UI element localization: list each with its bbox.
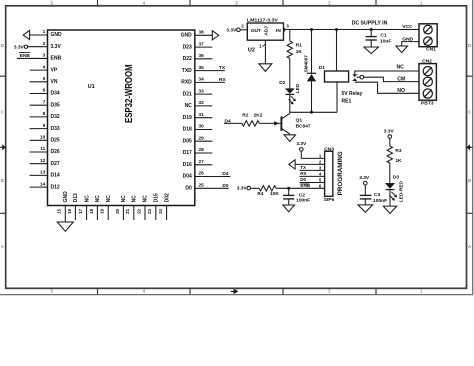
svg-text:NC: NC <box>121 195 127 203</box>
R3 1K resistor <box>387 138 402 183</box>
U1 pin 21 (NC) bottom wire and label <box>125 195 137 220</box>
svg-text:2: 2 <box>43 41 46 46</box>
svg-text:28: 28 <box>199 147 205 152</box>
CN3 pin 2 GND wire with port arrow <box>289 160 325 169</box>
svg-text:SM4007: SM4007 <box>303 55 308 73</box>
CN3 pin 4 RX wire <box>300 171 325 177</box>
junction dot rail/relay coil <box>335 28 338 31</box>
U1 pin 24 (D02) bottom wire and label <box>158 193 170 220</box>
U1 pin 20 (NC) bottom wire and label <box>115 195 127 220</box>
svg-text:D0: D0 <box>300 177 306 182</box>
svg-text:CN2: CN2 <box>422 59 432 65</box>
U1 pin 2 (3.3V) wire and label <box>14 41 62 50</box>
CN1 label <box>426 47 436 53</box>
U1 pin 17 (NC) bottom wire and label <box>78 195 90 220</box>
CN3 label <box>324 146 334 152</box>
svg-text:9: 9 <box>43 123 46 128</box>
U1 pin 29 (D05) wire and label <box>183 135 213 144</box>
U1 pin 14 (D12) wire and label <box>30 181 60 190</box>
svg-text:29: 29 <box>199 135 205 140</box>
svg-text:D25: D25 <box>51 138 60 144</box>
U1 pin 31 (D19) wire and label <box>183 112 213 121</box>
junction dot rail/D1 <box>310 28 313 31</box>
wire CM net <box>364 76 419 82</box>
U1 pin 36 (D22) wire and label <box>183 53 213 62</box>
U2 pin 3 number <box>286 23 289 28</box>
svg-text:LED-RED: LED-RED <box>399 180 405 202</box>
svg-text:LED: LED <box>295 83 301 93</box>
svg-text:LM1117-3.3V: LM1117-3.3V <box>247 18 279 23</box>
svg-text:1K: 1K <box>395 158 402 164</box>
VCC label <box>402 24 413 30</box>
Q1 base arrow <box>274 121 279 125</box>
svg-text:R2: R2 <box>242 112 248 118</box>
svg-text:7: 7 <box>43 99 46 104</box>
U1 pin 26 (D04) wire and label <box>183 171 231 180</box>
U1 pin 34 (RXD) wire and label <box>181 77 226 86</box>
svg-text:GND: GND <box>63 191 69 203</box>
junction dot rail/C1 <box>370 28 373 31</box>
svg-text:NO: NO <box>397 88 405 94</box>
svg-text:C: C <box>468 109 471 114</box>
svg-text:35: 35 <box>199 65 205 70</box>
U1 pin 16 (D13) bottom wire and label <box>67 193 79 220</box>
svg-text:RX: RX <box>300 171 307 176</box>
U1 pin 37 (D23) wire and label <box>183 41 213 50</box>
svg-text:5: 5 <box>43 76 46 81</box>
svg-text:VN: VN <box>51 79 58 85</box>
frame right zone ticks <box>467 76 473 213</box>
U1 pin 30 (D18) wire and label <box>183 124 213 133</box>
svg-text:D32: D32 <box>51 114 60 120</box>
svg-text:RXD: RXD <box>181 80 192 86</box>
svg-text:D22: D22 <box>183 56 192 62</box>
wire NO net <box>355 82 419 94</box>
transistor Q1 BC847 <box>281 114 310 135</box>
svg-text:RE1: RE1 <box>342 98 352 104</box>
svg-text:A: A <box>1 244 4 249</box>
CN3 pin numbers <box>319 153 322 188</box>
U1 pin 7 (D35) wire and label <box>30 99 60 108</box>
3.3V terminal at C3 <box>359 175 370 185</box>
svg-text:D34: D34 <box>51 91 60 97</box>
svg-text:TX: TX <box>300 165 307 170</box>
svg-text:37: 37 <box>199 41 205 46</box>
U1 pin 18 (NC) bottom wire and label <box>89 195 101 220</box>
svg-text:D19: D19 <box>183 115 192 121</box>
svg-text:14: 14 <box>40 181 46 186</box>
svg-text:D12: D12 <box>51 184 60 190</box>
svg-text:C: C <box>1 109 4 114</box>
R2 2K2 resistor <box>242 112 282 126</box>
svg-text:CN3: CN3 <box>324 146 334 152</box>
U1 pin 35 (TXD) wire and label <box>182 65 226 74</box>
svg-text:13: 13 <box>40 170 46 175</box>
LED D2 <box>279 80 301 113</box>
U1 pin 38 (GND) wire and label <box>181 30 219 40</box>
U1 pin 13 (D14) wire and label <box>30 170 60 179</box>
svg-text:4: 4 <box>43 64 46 69</box>
svg-text:23: 23 <box>147 208 152 213</box>
PROGRAMING label <box>337 151 344 195</box>
svg-text:D18: D18 <box>183 127 192 133</box>
svg-text:18: 18 <box>89 208 94 213</box>
frame center marker bottom <box>231 289 239 294</box>
U1 pin 19 (NC) bottom wire and label <box>100 195 112 220</box>
CN3 pin 6 ENB wire <box>300 183 310 188</box>
svg-text:31: 31 <box>199 112 205 117</box>
svg-text:3: 3 <box>43 53 46 58</box>
capacitor C2 100nF <box>283 188 310 205</box>
U2 reference designator <box>248 48 255 54</box>
relay contact pole arrows <box>352 74 357 81</box>
3.3V terminal at U2 output <box>226 23 247 33</box>
CN3 header body <box>325 151 333 196</box>
R1 1K resistor <box>287 30 302 89</box>
svg-text:R4: R4 <box>257 191 263 197</box>
svg-text:BC847: BC847 <box>296 124 311 130</box>
svg-text:GND: GND <box>181 33 193 39</box>
junction dot R4/C2 <box>287 187 290 190</box>
svg-text:D3: D3 <box>393 175 399 181</box>
frame zone letters left (D C B A) <box>1 43 4 249</box>
U1 pin 25 (D0) wire and label <box>185 183 228 192</box>
svg-text:D21: D21 <box>183 91 192 97</box>
3.3V terminal at CN3 pin1 <box>296 141 324 159</box>
svg-text:PBT3: PBT3 <box>421 101 434 107</box>
svg-text:17: 17 <box>78 208 83 213</box>
svg-text:11: 11 <box>40 146 45 151</box>
svg-text:NC: NC <box>132 195 138 203</box>
U2 pin names OUT ADJ IN <box>251 26 282 36</box>
svg-text:19: 19 <box>100 208 105 213</box>
svg-text:38: 38 <box>199 30 205 35</box>
diode D1 SM4007 <box>303 30 325 113</box>
U1 pin 23 (D15) bottom wire and label <box>147 193 159 220</box>
U1 pin 6 (D34) wire and label <box>30 88 60 97</box>
svg-text:D15: D15 <box>154 193 160 202</box>
svg-text:15: 15 <box>57 208 62 213</box>
svg-text:B: B <box>468 178 471 183</box>
svg-text:NC: NC <box>84 195 90 203</box>
CN3 pin 5 D0 wire <box>300 177 325 183</box>
terminal block CN2 PBT3 <box>419 64 436 101</box>
U1 pin 11 (D26) wire and label <box>30 146 60 155</box>
terminal block CN1 <box>419 24 437 47</box>
svg-text:12: 12 <box>40 158 46 163</box>
svg-text:A: A <box>468 244 471 249</box>
svg-text:D4: D4 <box>222 171 228 177</box>
relay coil top wire <box>336 30 338 72</box>
svg-text:25: 25 <box>199 183 205 188</box>
svg-text:1: 1 <box>43 29 46 34</box>
svg-text:TXD: TXD <box>182 68 192 74</box>
svg-text:NC: NC <box>143 195 149 203</box>
svg-text:U2: U2 <box>248 48 255 54</box>
svg-text:D13: D13 <box>73 193 79 202</box>
svg-text:NC: NC <box>397 65 405 71</box>
U1 name ESP32-WROOM <box>124 64 135 123</box>
LED D3 LED-RED <box>385 175 405 206</box>
svg-text:U1: U1 <box>88 84 95 90</box>
svg-text:D02: D02 <box>164 193 170 202</box>
capacitor C1 10uF <box>366 30 392 48</box>
net label D4 wire to R2 <box>224 118 242 124</box>
svg-text:3.3V: 3.3V <box>51 44 62 50</box>
svg-text:24: 24 <box>158 208 163 213</box>
svg-text:CM: CM <box>397 76 405 82</box>
svg-text:PROGRAMING: PROGRAMING <box>337 151 344 195</box>
svg-text:27: 27 <box>199 159 205 164</box>
svg-text:D2: D2 <box>279 80 285 86</box>
svg-text:ENB: ENB <box>20 53 31 59</box>
svg-text:32: 32 <box>199 100 205 105</box>
U1 pin 28 (D17) wire and label <box>183 147 213 156</box>
SIP6 label <box>324 197 335 203</box>
U1 pin 33 (D21) wire and label <box>183 88 213 97</box>
svg-text:D26: D26 <box>51 149 60 155</box>
relay contact pivot circle <box>357 75 364 79</box>
U1 pin 3 (ENB) wire and label <box>17 53 62 62</box>
junction dot D1 anode <box>310 111 313 114</box>
svg-text:D23: D23 <box>183 44 192 50</box>
svg-text:D35: D35 <box>51 102 60 108</box>
U1 pin 4 (VP) wire and label <box>30 64 58 73</box>
svg-text:D0: D0 <box>185 186 192 192</box>
svg-text:10uF: 10uF <box>380 39 391 45</box>
sheet frame inner border <box>6 6 467 289</box>
svg-text:C1: C1 <box>380 33 387 39</box>
svg-text:20: 20 <box>115 208 120 213</box>
ground at D3 <box>383 206 396 213</box>
U1 pin 9 (D33) wire and label <box>30 123 60 132</box>
svg-text:100nF: 100nF <box>296 198 310 204</box>
svg-text:DC SUPPLY IN: DC SUPPLY IN <box>352 21 388 27</box>
svg-text:6: 6 <box>43 88 46 93</box>
U1 pin 22 (NC) bottom wire and label <box>136 195 148 220</box>
svg-text:8: 8 <box>43 111 46 116</box>
svg-text:R3: R3 <box>395 148 401 154</box>
relay labels 5V Relay RE1 <box>342 91 363 105</box>
svg-text:D: D <box>468 43 471 48</box>
svg-text:VCC: VCC <box>402 24 413 30</box>
svg-text:3.3V: 3.3V <box>384 129 395 135</box>
U1 pin 15 (GND) bottom wire and label with ground <box>57 191 74 231</box>
svg-text:NC: NC <box>106 195 112 203</box>
capacitor C3 100nF <box>360 185 387 205</box>
svg-text:D33: D33 <box>51 126 60 132</box>
ESP32 module U1 body <box>48 30 195 206</box>
CN1 GND wire <box>402 42 419 46</box>
svg-text:GND: GND <box>51 32 63 38</box>
svg-text:Q1: Q1 <box>296 118 303 124</box>
3.3V terminal at R4 <box>237 186 251 192</box>
U1 pin 27 (D16) wire and label <box>183 159 213 168</box>
GND label at CN1 <box>402 37 413 43</box>
svg-text:ENB: ENB <box>51 56 62 62</box>
3.3V terminal at R3 <box>384 129 395 139</box>
ground at C1 <box>364 47 379 54</box>
svg-text:30: 30 <box>199 124 205 129</box>
PBT3 label <box>421 101 434 107</box>
frame zone numbers bottom (5 4 3 2 1) <box>51 289 424 294</box>
svg-text:TX: TX <box>219 65 226 71</box>
svg-text:D27: D27 <box>51 161 60 167</box>
svg-text:OUT: OUT <box>251 28 261 34</box>
svg-text:10K: 10K <box>270 191 279 197</box>
relay RE1 coil body <box>325 71 349 82</box>
svg-text:21: 21 <box>125 208 130 213</box>
svg-text:3.3V: 3.3V <box>14 44 25 50</box>
frame center marker left <box>0 144 6 150</box>
ground at U2 ADJ <box>259 64 272 72</box>
svg-text:D05: D05 <box>183 138 192 144</box>
voltage regulator U2 LM1117-3.3V body <box>247 18 284 41</box>
svg-text:R1: R1 <box>296 43 302 49</box>
U1 pin 1 (GND) wire and label <box>23 29 62 39</box>
svg-text:36: 36 <box>199 53 205 58</box>
CN2 label <box>422 59 432 65</box>
U1 pin 5 (VN) wire and label <box>30 76 58 85</box>
svg-text:D14: D14 <box>51 173 60 179</box>
svg-text:D4: D4 <box>225 118 231 124</box>
svg-text:SIP6: SIP6 <box>324 197 335 203</box>
frame top zone ticks <box>98 0 377 6</box>
DC SUPPLY IN label <box>352 21 388 27</box>
svg-text:26: 26 <box>199 171 205 176</box>
LED D2 light arrows <box>289 96 296 104</box>
svg-text:3.3V: 3.3V <box>237 186 248 192</box>
U1 pin 32 (NC) wire and label <box>185 100 213 109</box>
svg-text:C3: C3 <box>374 192 381 198</box>
3.3V rail wire from U2 IN to CN1 VCC <box>284 29 420 31</box>
R4 10K resistor and ENB wire <box>251 186 325 198</box>
svg-text:D1: D1 <box>319 65 325 71</box>
frame left zone ticks <box>0 76 6 213</box>
LED D3 light arrows <box>389 192 397 201</box>
U1 reference designator <box>88 84 95 90</box>
wire NC net <box>355 65 419 75</box>
frame center marker right <box>467 144 473 150</box>
CN3 pin 3 TX wire <box>300 165 325 171</box>
svg-text:3.3V: 3.3V <box>359 175 370 181</box>
relay coil bottom wire <box>336 82 338 112</box>
ground at Q1 emitter <box>284 135 295 142</box>
ground at C2 <box>283 205 295 212</box>
frame zone numbers top (5 4 3 2 1) <box>51 0 424 5</box>
svg-text:22: 22 <box>136 208 141 213</box>
svg-text:IN: IN <box>276 28 281 34</box>
svg-text:ADJ: ADJ <box>263 26 269 36</box>
frame zone letters right (D C B A) <box>468 43 471 249</box>
wire Q1 collector to relay coil <box>290 111 337 113</box>
svg-text:34: 34 <box>199 77 205 82</box>
svg-text:NC: NC <box>185 103 193 109</box>
svg-text:16: 16 <box>67 208 72 213</box>
U1 pin 8 (D32) wire and label <box>30 111 60 120</box>
svg-text:D17: D17 <box>183 150 192 156</box>
U2 ADJ pin 1 wire <box>259 40 265 64</box>
svg-text:C2: C2 <box>299 192 306 198</box>
svg-text:D0: D0 <box>222 183 228 189</box>
U1 pin 10 (D25) wire and label <box>30 135 60 144</box>
svg-text:100nF: 100nF <box>373 198 387 204</box>
svg-text:D16: D16 <box>183 162 192 168</box>
ground at C3 <box>358 205 373 212</box>
svg-text:D04: D04 <box>183 174 192 180</box>
ground at CN1 <box>396 46 408 53</box>
U1 pin 12 (D27) wire and label <box>30 158 60 167</box>
svg-text:VP: VP <box>51 67 58 73</box>
svg-text:33: 33 <box>199 88 205 93</box>
U2 IN pin blob <box>283 28 285 31</box>
svg-text:ESP32-WROOM: ESP32-WROOM <box>124 64 135 123</box>
frame bottom zone ticks <box>98 288 377 294</box>
svg-text:B: B <box>1 178 4 183</box>
svg-text:RX: RX <box>219 77 226 83</box>
svg-text:5V Relay: 5V Relay <box>342 91 363 97</box>
svg-text:CN1: CN1 <box>426 47 436 53</box>
svg-text:10: 10 <box>40 135 46 140</box>
svg-text:3.3V: 3.3V <box>296 141 307 147</box>
svg-text:D: D <box>1 43 4 48</box>
svg-text:NC: NC <box>95 195 101 203</box>
svg-text:3.3V: 3.3V <box>226 27 237 33</box>
svg-text:2K2: 2K2 <box>254 112 263 118</box>
svg-text:1K: 1K <box>296 49 303 55</box>
